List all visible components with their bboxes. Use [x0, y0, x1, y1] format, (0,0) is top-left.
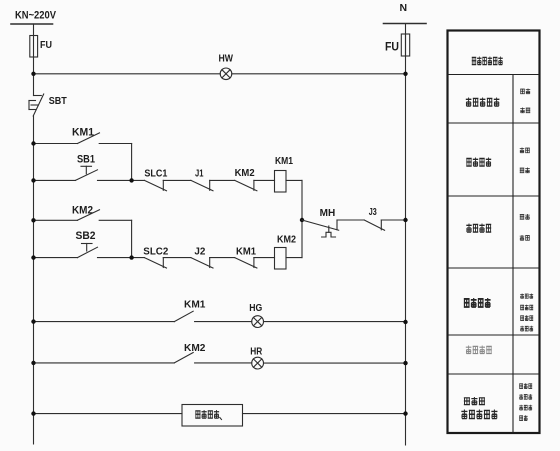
- contact J1 (NC): [191, 168, 235, 191]
- junction right bus / HW row: [403, 72, 407, 76]
- wire from KN to fuse FU: [33, 24, 35, 96]
- svg-text:SLC2: SLC2: [143, 246, 168, 258]
- svg-text:KM1: KM1: [236, 246, 256, 258]
- table column divider: [512, 75, 514, 434]
- svg-text:KM1: KM1: [275, 155, 293, 167]
- junction right bus / bottom row: [403, 411, 407, 415]
- contact KM2 (NC interlock): [235, 167, 275, 191]
- junction right bus / MH row: [403, 218, 407, 222]
- junction left bus / KM1 row: [31, 141, 35, 145]
- node KN~220V terminal bar: [11, 23, 53, 25]
- table row divider 5: [448, 334, 540, 336]
- wire coil common rail: [301, 180, 303, 257]
- svg-text:J3: J3: [369, 206, 377, 218]
- junction SB1 row / KM1 branch: [129, 178, 133, 182]
- fuse FU (left): [30, 36, 52, 58]
- table row3 right notes: [520, 148, 530, 174]
- table row5 label: [464, 298, 491, 308]
- svg-text:HW: HW: [219, 52, 234, 64]
- junction coil rail / MH row: [300, 218, 304, 222]
- junction SB2 row / KM2 branch: [129, 255, 133, 259]
- svg-text:KM1: KM1: [184, 299, 206, 311]
- svg-text:KM2: KM2: [235, 167, 255, 179]
- contact KM2 (seal-in, NO): [34, 204, 132, 220]
- switch SBT: [29, 94, 67, 116]
- lamp HG: [249, 302, 405, 328]
- junction right bus / HR row: [403, 361, 407, 365]
- svg-text:HR: HR: [250, 346, 262, 358]
- right bus wire N: [405, 24, 407, 446]
- contact SLC2 (NC): [143, 246, 191, 268]
- table row2 right notes: [520, 89, 530, 114]
- node N label: [400, 2, 408, 14]
- svg-text:KM2: KM2: [277, 234, 296, 246]
- table row divider 3: [448, 195, 540, 197]
- junction left bus / HW row: [31, 72, 35, 76]
- wire bottom row: [34, 413, 406, 415]
- contact KM1 (NC interlock): [235, 246, 275, 268]
- table row6 label: [466, 346, 492, 355]
- left bus wire below SBT: [33, 116, 35, 444]
- table row7 label line2: [461, 410, 497, 420]
- junction left bus / HR row: [31, 361, 35, 365]
- contact J2 (NC): [191, 246, 235, 268]
- wire KM1 branch down: [131, 144, 133, 181]
- svg-text:SB1: SB1: [77, 154, 95, 166]
- junction left bus / HG row: [31, 319, 35, 323]
- svg-text:MH: MH: [320, 207, 336, 219]
- svg-text:FU: FU: [40, 39, 52, 51]
- table row divider 4: [448, 267, 540, 269]
- svg-text:FU: FU: [385, 40, 399, 54]
- table header divider: [448, 74, 540, 76]
- svg-text:J2: J2: [194, 246, 205, 258]
- junction left bus / bottom row: [31, 411, 35, 415]
- node N terminal bar: [384, 23, 427, 25]
- pushbutton SB2: [34, 230, 145, 258]
- junction left bus / KM2 row: [31, 218, 35, 222]
- switch MH (manual, NC): [302, 207, 364, 237]
- contact J3 (NC): [364, 206, 405, 230]
- svg-text:KM2: KM2: [184, 342, 206, 354]
- table row7 label line1: [464, 397, 485, 405]
- svg-text:KN~220V: KN~220V: [15, 10, 57, 22]
- svg-text:J1: J1: [195, 168, 204, 180]
- lamp HR: [250, 346, 405, 369]
- fuse FU (right): [385, 34, 410, 56]
- junction right bus / HG row: [403, 320, 407, 324]
- svg-text:SBT: SBT: [49, 95, 68, 107]
- table row7 right notes: [519, 383, 532, 421]
- contact KM1 (seal-in, NO): [34, 127, 132, 144]
- table row4 label: [466, 224, 491, 233]
- table row5 right notes: [520, 294, 533, 332]
- table header text: [472, 57, 503, 66]
- contact KM2 (HR lamp row, NO): [34, 342, 252, 363]
- lamp HW: [219, 52, 234, 79]
- coil KM2: [275, 234, 303, 269]
- wire row HW: [34, 73, 406, 75]
- svg-text:HG: HG: [249, 302, 262, 314]
- svg-text:SB2: SB2: [76, 230, 96, 242]
- box valve remote control unit: [182, 405, 243, 427]
- pushbutton SB1: [34, 154, 145, 181]
- svg-text:SLC1: SLC1: [144, 168, 167, 180]
- table row3 label: [466, 158, 491, 167]
- junction left bus / SB2 row: [31, 255, 35, 259]
- table row2 label: [466, 98, 500, 107]
- contact SLC1 (NC): [144, 168, 191, 191]
- wire KM2 branch down: [131, 220, 133, 257]
- junction left bus / SB1 row: [31, 178, 35, 182]
- table row divider 6: [448, 373, 540, 375]
- coil KM1: [275, 155, 303, 192]
- node KN~220V label: [15, 10, 57, 22]
- table row divider 2: [448, 122, 540, 124]
- table frame: [448, 31, 540, 434]
- table row4 right notes: [520, 214, 530, 241]
- svg-text:N: N: [400, 2, 408, 14]
- contact KM1 (HG lamp row, NO): [34, 299, 252, 322]
